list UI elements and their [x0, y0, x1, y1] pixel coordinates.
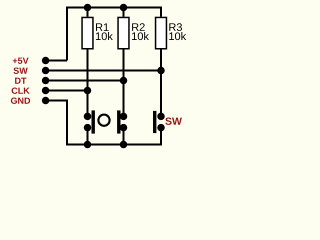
- wire R3 column to SW switch: [160, 49, 162, 116]
- pin label GND: [11, 98, 30, 104]
- rotary encoder contact A bar: [92, 110, 95, 133]
- terminal CLK: [42, 87, 50, 95]
- junction node on top rail at R2: [120, 4, 128, 12]
- wire R1 column: [87, 8, 89, 145]
- wire SW row: [46, 70, 161, 72]
- rotary encoder contact B lower pin: [120, 124, 128, 132]
- switch SW upper pin: [157, 113, 165, 121]
- value 10k of R1: [96, 32, 113, 40]
- pin label +5V: [13, 58, 29, 64]
- junction node on bottom rail at encoder B: [120, 141, 128, 149]
- resistor R3: [155, 17, 186, 50]
- rotary encoder contact A upper pin: [84, 113, 92, 121]
- value 10k of R3: [169, 32, 186, 40]
- wire CLK row: [46, 90, 88, 92]
- label R3: [169, 23, 182, 31]
- rotary encoder contact B upper pin: [120, 113, 128, 121]
- wire top rail +5V: [67, 8, 161, 61]
- wire GND row to bottom rail: [46, 101, 161, 145]
- label R2: [132, 23, 145, 31]
- switch SW lower pin: [157, 124, 165, 132]
- terminal DT: [42, 77, 50, 85]
- wire +5V row: [46, 60, 67, 62]
- rotary encoder shaft circle: [98, 115, 109, 126]
- wire DT row: [46, 80, 124, 82]
- junction node on bottom rail at encoder A: [84, 141, 92, 149]
- label R1: [96, 23, 109, 31]
- wire R2 column: [123, 8, 125, 145]
- switch label SW: [165, 117, 182, 124]
- switch SW bar: [153, 111, 156, 133]
- terminal GND: [42, 97, 50, 105]
- pin label DT: [15, 78, 26, 84]
- node CLK row junction at R1 column: [84, 87, 92, 95]
- pin label CLK: [12, 88, 30, 94]
- junction node on top rail at R1: [84, 4, 92, 12]
- rotary encoder contact B bar: [117, 110, 120, 133]
- resistor R1: [81, 17, 113, 50]
- node DT row junction at R2 column: [120, 77, 128, 85]
- rotary encoder contact A lower pin: [84, 124, 92, 132]
- node SW row junction at R3 column: [157, 67, 165, 75]
- terminal SW: [42, 67, 50, 75]
- pin label SW: [14, 68, 28, 74]
- value 10k of R2: [132, 32, 149, 40]
- resistor R2: [117, 17, 149, 50]
- terminal +5V: [42, 57, 50, 65]
